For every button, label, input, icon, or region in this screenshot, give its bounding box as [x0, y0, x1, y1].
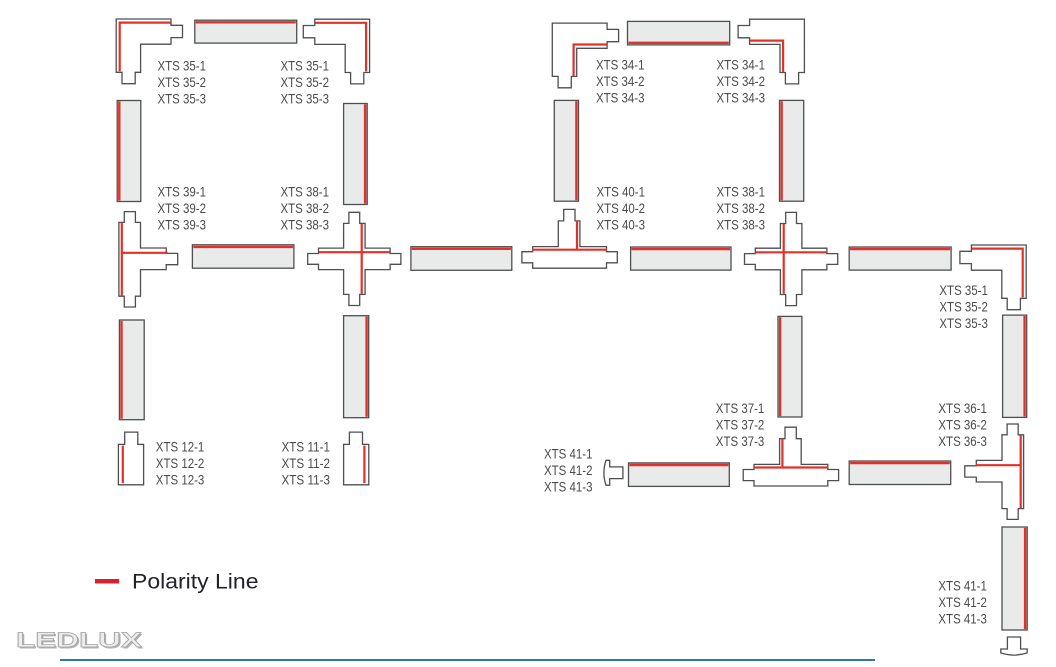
- track segment (link between squares): [411, 247, 512, 271]
- svg-text:XTS 38-2: XTS 38-2: [281, 200, 330, 216]
- LEDLUX logo: [16, 628, 144, 653]
- svg-text:XTS 35-1: XTS 35-1: [158, 57, 207, 73]
- svg-text:XTS 35-3: XTS 35-3: [939, 315, 988, 331]
- svg-text:XTS 34-2: XTS 34-2: [717, 73, 766, 89]
- svg-text:XTS 41-3: XTS 41-3: [544, 479, 593, 495]
- svg-text:XTS 39-1: XTS 39-1: [158, 184, 207, 200]
- svg-text:XTS 12-1: XTS 12-1: [156, 439, 205, 455]
- track segment (bottom row right): [849, 461, 951, 485]
- svg-text:XTS 34-2: XTS 34-2: [596, 73, 645, 89]
- svg-text:XTS 38-3: XTS 38-3: [281, 217, 330, 233]
- live end feed XTS 41 (bottom row left): [604, 460, 623, 485]
- svg-text:LEDLUX: LEDLUX: [16, 628, 142, 652]
- track segment (right square left side): [554, 100, 578, 201]
- track segment (left square left side lower): [119, 320, 144, 420]
- L-connector XTS 35 (left square top-right): [303, 19, 369, 84]
- track segment (left square left side upper): [117, 101, 141, 202]
- track segment (left square right side upper): [344, 104, 368, 205]
- svg-text:XTS 35-3: XTS 35-3: [281, 90, 330, 106]
- svg-text:XTS 36-2: XTS 36-2: [938, 416, 987, 432]
- svg-text:XTS 40-2: XTS 40-2: [597, 200, 646, 216]
- svg-text:XTS 41-1: XTS 41-1: [938, 578, 987, 594]
- svg-text:XTS 41-2: XTS 41-2: [544, 462, 593, 478]
- track segment (right square right side): [780, 100, 804, 201]
- track segment (right column lower): [1002, 527, 1027, 630]
- svg-text:XTS 39-3: XTS 39-3: [158, 217, 207, 233]
- track segment (left square top): [195, 20, 297, 43]
- svg-text:XTS 34-1: XTS 34-1: [596, 57, 645, 73]
- svg-text:XTS 34-1: XTS 34-1: [717, 57, 766, 73]
- L-connector XTS 35 (left square top-left): [116, 19, 182, 84]
- track segment (right square bottom): [631, 247, 731, 270]
- T-connector XTS 37 (bottom row middle): [743, 427, 838, 486]
- svg-text:XTS 11-1: XTS 11-1: [282, 439, 331, 455]
- svg-text:XTS 38-2: XTS 38-2: [717, 200, 766, 216]
- svg-text:XTS 36-1: XTS 36-1: [938, 400, 987, 416]
- L-connector XTS 35 (right column corner): [960, 245, 1026, 310]
- svg-text:XTS 37-3: XTS 37-3: [716, 433, 765, 449]
- T-connector XTS 39 (left square mid-left): [119, 212, 178, 307]
- svg-text:XTS 38-3: XTS 38-3: [717, 217, 766, 233]
- end cap XTS 11: [344, 432, 369, 485]
- svg-text:XTS 40-1: XTS 40-1: [597, 184, 646, 200]
- live end feed XTS 41 (bottom right): [1001, 637, 1027, 655]
- svg-text:XTS 41-1: XTS 41-1: [544, 446, 593, 462]
- footer rule: [60, 659, 875, 661]
- X-connector XTS 38 (right square bottom-right): [745, 212, 838, 305]
- svg-text:XTS 12-2: XTS 12-2: [156, 455, 205, 471]
- svg-text:XTS 36-3: XTS 36-3: [938, 433, 987, 449]
- legend polarity dash: [95, 579, 119, 584]
- track segment (middle row right): [849, 247, 951, 270]
- T-connector XTS 40 (right square bottom-left): [522, 209, 617, 268]
- svg-text:XTS 39-2: XTS 39-2: [158, 200, 207, 216]
- svg-text:XTS 35-3: XTS 35-3: [158, 90, 207, 106]
- track segment (right square top): [628, 21, 730, 45]
- svg-text:XTS 38-1: XTS 38-1: [717, 184, 766, 200]
- svg-text:Polarity Line: Polarity Line: [132, 570, 259, 594]
- svg-text:XTS 35-2: XTS 35-2: [281, 74, 330, 90]
- track segment (bottom row left): [629, 463, 730, 487]
- svg-text:XTS 12-3: XTS 12-3: [156, 472, 205, 488]
- T-connector XTS 36 (right column): [965, 424, 1024, 519]
- svg-text:XTS 34-3: XTS 34-3: [596, 90, 645, 106]
- svg-text:XTS 37-1: XTS 37-1: [716, 400, 765, 416]
- svg-text:XTS 11-2: XTS 11-2: [282, 455, 331, 471]
- X-connector XTS 38 (left square mid-right): [308, 212, 401, 305]
- svg-text:XTS 35-2: XTS 35-2: [939, 299, 988, 315]
- svg-text:XTS 37-2: XTS 37-2: [716, 416, 765, 432]
- svg-text:XTS 34-3: XTS 34-3: [717, 90, 766, 106]
- end cap XTS 12: [118, 432, 143, 485]
- svg-text:XTS 38-1: XTS 38-1: [281, 184, 330, 200]
- svg-text:XTS 11-3: XTS 11-3: [282, 472, 331, 488]
- track segment (right column upper): [1003, 315, 1027, 417]
- svg-text:XTS 40-3: XTS 40-3: [597, 217, 646, 233]
- L-connector XTS 34 (right square top-right): [738, 19, 804, 84]
- svg-text:XTS 35-1: XTS 35-1: [281, 57, 330, 73]
- track segment (left square right side lower): [344, 316, 369, 418]
- svg-text:XTS 35-1: XTS 35-1: [939, 282, 988, 298]
- track segment (below right X-connector): [778, 316, 802, 417]
- svg-text:XTS 35-2: XTS 35-2: [158, 74, 207, 90]
- L-connector XTS 34 (right square top-left): [552, 23, 618, 88]
- svg-text:XTS 41-2: XTS 41-2: [938, 594, 987, 610]
- track segment (left square middle): [192, 245, 294, 268]
- svg-text:XTS 41-3: XTS 41-3: [938, 611, 987, 627]
